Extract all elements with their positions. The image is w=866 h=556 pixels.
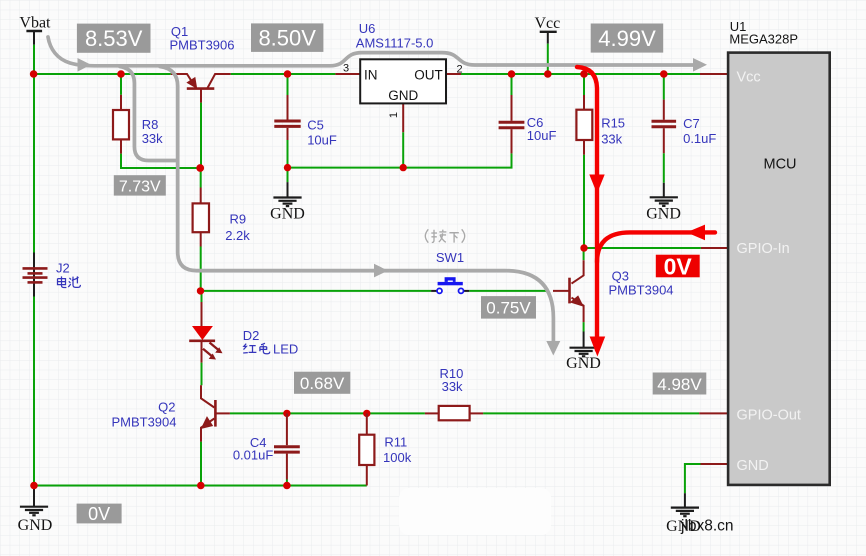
svg-text:J2: J2 bbox=[56, 260, 70, 275]
node C7 top junction bbox=[660, 70, 668, 78]
svg-text:R15: R15 bbox=[601, 116, 625, 131]
resistor R15 bbox=[576, 95, 592, 155]
S1 bbox=[335, 74, 728, 464]
wire node A to R9 top bbox=[200, 168, 202, 188]
wire SW1 line left bbox=[200, 290, 431, 292]
ground symbol below U1 GND pin bbox=[671, 508, 699, 517]
wire C4 bottom green bbox=[286, 480, 288, 486]
wire top bus Vbat corner to Q1 emitter bbox=[33, 73, 171, 75]
watermark cover blob bbox=[399, 488, 551, 535]
wire bottom rail bbox=[34, 485, 367, 487]
label J2 battery CJK bbox=[58, 276, 81, 287]
wire bus stub to U1 Vcc pin bbox=[700, 73, 728, 75]
wire Q2 emitter to bottom rail bbox=[200, 442, 202, 486]
red arrowhead mid below R15 bbox=[589, 175, 604, 194]
node Q2 emitter rail junction bbox=[197, 482, 205, 490]
wire GND stub below node B black bbox=[287, 182, 289, 197]
svg-text:Vbat: Vbat bbox=[19, 15, 51, 32]
svg-text:AMS1117-5.0: AMS1117-5.0 bbox=[356, 36, 434, 51]
node C5 top junction bbox=[284, 70, 292, 78]
svg-text:0.1uF: 0.1uF bbox=[683, 131, 716, 146]
wire Q3 collector green bbox=[583, 248, 585, 260]
node GPIO-In junction bbox=[580, 244, 587, 251]
resistor R8 bbox=[113, 95, 129, 154]
node Vbat corner junction bbox=[30, 70, 38, 78]
node R15 top junction bbox=[580, 70, 588, 78]
red arrowhead on GPIO-In flow pointing left bbox=[687, 225, 706, 241]
svg-text:MEGA328P: MEGA328P bbox=[729, 32, 798, 47]
svg-text:2.2k: 2.2k bbox=[225, 228, 250, 243]
wire Vcc symbol stem black bbox=[547, 32, 549, 44]
wire battery to bottom rail bbox=[33, 297, 35, 486]
wire SW1 left black lead bbox=[431, 290, 437, 292]
svg-text:U6: U6 bbox=[359, 21, 376, 36]
wire C5 bottom green to node B bbox=[287, 140, 289, 168]
wire U1 GND pin stub bbox=[701, 463, 729, 465]
wire bottom-left GND stem black bbox=[33, 486, 35, 507]
wire U1 GND stem black bbox=[684, 493, 686, 507]
node A Q1 base junction bbox=[196, 164, 204, 172]
wire C7 GND stem black bbox=[663, 183, 665, 198]
wire C7 bottom green bbox=[663, 153, 665, 183]
voltage label 0V red bbox=[656, 253, 700, 279]
switch SW1 bbox=[437, 277, 464, 293]
LED D2 bbox=[189, 302, 222, 363]
wire GPIO-In node to pin bbox=[584, 247, 701, 249]
svg-text:D2: D2 bbox=[243, 328, 260, 343]
wire GPIO-Out pin stub bbox=[699, 412, 728, 414]
power symbol Vcc T-bar bbox=[540, 31, 557, 33]
capacitor C5 bbox=[274, 95, 300, 140]
wire Q3 emitter green bbox=[583, 322, 585, 331]
wire U6 GND pin stub bbox=[402, 103, 404, 132]
ground symbol below C5 node B bbox=[273, 198, 301, 207]
voltage label 4.98V bbox=[653, 373, 707, 395]
capacitor C6 bbox=[499, 95, 525, 153]
svg-text:IN: IN bbox=[364, 68, 378, 83]
wire R15 top stub green bbox=[583, 74, 585, 95]
wire SW1 right black lead bbox=[463, 290, 469, 292]
label SW1 pressed CJK (gray) bbox=[425, 229, 464, 242]
svg-text:GPIO-In: GPIO-In bbox=[737, 241, 790, 257]
svg-text:0.01uF: 0.01uF bbox=[233, 448, 274, 463]
wire GND stub below node B green bbox=[287, 168, 289, 183]
wire LED cathode to Q2 collector (green mid) bbox=[201, 363, 203, 386]
voltage label 0.68V bbox=[294, 372, 350, 394]
transistor Q2 PMBT3904 bbox=[201, 385, 230, 441]
node Vcc junction bbox=[544, 70, 552, 78]
ground symbol bottom-left bbox=[20, 507, 48, 516]
power symbol Vbat T-bar bbox=[26, 30, 42, 32]
svg-text:10uF: 10uF bbox=[527, 128, 557, 143]
voltage label 0.75V bbox=[481, 296, 536, 319]
svg-text:0V: 0V bbox=[88, 504, 110, 524]
wire R10 to U1 GPIO-Out bbox=[483, 412, 699, 414]
svg-text:3: 3 bbox=[343, 63, 349, 75]
wire U1 GND pin to ground L bbox=[685, 464, 701, 493]
node SW1 line junction bbox=[197, 287, 204, 294]
svg-text:33k: 33k bbox=[601, 131, 622, 146]
svg-text:MCU: MCU bbox=[763, 156, 796, 172]
MCU U1 MEGA328P box bbox=[728, 53, 830, 485]
wire Q3 emitter to GND black bbox=[583, 332, 585, 348]
svg-text:GND: GND bbox=[737, 458, 769, 474]
wire GPIO-In pin stub bbox=[701, 247, 728, 249]
voltage label 7.73V bbox=[114, 175, 166, 195]
wire C7 top stub green bbox=[663, 74, 665, 100]
svg-text:GND: GND bbox=[270, 206, 305, 223]
node R11 top junction bbox=[363, 410, 370, 417]
svg-text:4.99V: 4.99V bbox=[598, 26, 656, 51]
transistor Q3 PMBT3904 bbox=[553, 260, 584, 322]
voltage label 0V gray bbox=[77, 504, 122, 524]
wire battery stem (black) bbox=[33, 253, 35, 297]
wire gray flow path 2 via R8 loop bbox=[120, 67, 553, 342]
svg-text:R9: R9 bbox=[230, 211, 247, 226]
svg-text:Q2: Q2 bbox=[158, 399, 175, 414]
svg-text:0.68V: 0.68V bbox=[300, 374, 345, 393]
resistor R9 bbox=[193, 188, 209, 247]
gray arrowhead before SW1 bbox=[374, 264, 388, 278]
svg-text:R11: R11 bbox=[384, 434, 407, 449]
svg-text:GND: GND bbox=[388, 88, 418, 103]
svg-text:jlbx8.cn: jlbx8.cn bbox=[680, 518, 734, 535]
wire U6 GND pin green bbox=[402, 132, 404, 167]
node bottom rail left junction bbox=[30, 482, 38, 490]
gray arrowhead down at Q3 GND bbox=[546, 341, 560, 356]
voltage label 8.53V bbox=[77, 24, 151, 53]
svg-text:7.73V: 7.73V bbox=[119, 178, 161, 195]
svg-text:0V: 0V bbox=[664, 253, 693, 279]
gray arrowhead before U1 Vcc bbox=[693, 58, 707, 72]
wire Vbat to bus (green) bbox=[33, 45, 35, 74]
wire Vbat column down to battery bbox=[33, 74, 35, 253]
wire Q2 base line to R10 bbox=[230, 412, 425, 414]
label D2 red LED CJK + LED bbox=[243, 343, 270, 354]
node C6 top junction bbox=[508, 70, 516, 78]
wire C5 top stub green bbox=[287, 74, 289, 95]
red arrowhead down at Q3 GND bbox=[590, 337, 606, 357]
wire LED column from node bbox=[201, 291, 203, 302]
wire bus Q1 collector to U6 IN bbox=[231, 73, 336, 75]
resistor R10 bbox=[425, 406, 483, 420]
wire node B to U6 GND node to C6 bottom bbox=[288, 153, 512, 167]
wire SW1 to Q3 base bbox=[469, 290, 546, 292]
voltage label 8.50V bbox=[251, 23, 323, 52]
node U6 GND junction bbox=[400, 164, 407, 171]
capacitor C7 bbox=[652, 100, 677, 154]
ground symbol below Q3 bbox=[570, 348, 598, 357]
svg-text:Vcc: Vcc bbox=[737, 69, 761, 85]
svg-text:SW1: SW1 bbox=[436, 250, 464, 265]
svg-text:GND: GND bbox=[646, 205, 681, 222]
capacitor C4 bbox=[274, 413, 300, 479]
node R8 top junction bbox=[117, 70, 125, 78]
wire Vcc symbol to bus green bbox=[547, 44, 549, 74]
svg-text:PMBT3904: PMBT3904 bbox=[609, 282, 674, 297]
svg-text:8.53V: 8.53V bbox=[85, 26, 143, 51]
gray arrowhead near Vbat bbox=[78, 58, 92, 72]
op-amp U6 AMS1117-5.0 regulator box bbox=[343, 59, 463, 118]
svg-text:Vcc: Vcc bbox=[535, 15, 561, 32]
battery J2 bbox=[23, 268, 48, 282]
svg-text:10uF: 10uF bbox=[307, 133, 337, 148]
svg-text:R8: R8 bbox=[142, 117, 159, 132]
resistor R11 bbox=[359, 413, 374, 485]
voltage label 4.99V bbox=[591, 24, 664, 53]
svg-text:2: 2 bbox=[456, 63, 462, 75]
svg-text:100k: 100k bbox=[383, 450, 412, 465]
node C4 top junction bbox=[283, 410, 290, 417]
node B C5 bottom junction bbox=[284, 164, 291, 171]
svg-text:1: 1 bbox=[388, 112, 400, 118]
wire U6 OUT stub bbox=[446, 73, 461, 75]
wire gray flow path 1 Vbat to U1 Vcc bbox=[48, 37, 701, 66]
svg-text:OUT: OUT bbox=[414, 68, 443, 83]
svg-text:8.50V: 8.50V bbox=[258, 26, 316, 51]
node C4 bottom junction bbox=[283, 482, 291, 490]
ground symbol below C7 bbox=[650, 197, 678, 206]
wire R8 bottom L to node A bbox=[121, 154, 200, 168]
svg-text:GND: GND bbox=[18, 517, 53, 534]
wire bus U6 OUT to U1 Vcc bbox=[461, 73, 700, 75]
transistor Q1 PMBT3906 bbox=[171, 74, 231, 103]
wire Q1 base down to node A bbox=[200, 103, 202, 168]
wire red flow path from bus through R15 to GND bbox=[577, 67, 715, 350]
svg-text:PMBT3904: PMBT3904 bbox=[111, 415, 176, 430]
svg-text:Q3: Q3 bbox=[612, 268, 629, 283]
wire Vbat stem (black) bbox=[33, 31, 35, 45]
svg-text:33k: 33k bbox=[142, 131, 163, 146]
svg-text:LED: LED bbox=[273, 341, 298, 356]
svg-text:4.98V: 4.98V bbox=[657, 375, 702, 394]
svg-text:PMBT3906: PMBT3906 bbox=[169, 37, 234, 52]
wire R15 bottom to GPIO-In node bbox=[583, 155, 585, 248]
wire R9 bottom to SW1 line node bbox=[200, 247, 202, 291]
svg-text:33k: 33k bbox=[442, 379, 463, 394]
svg-text:C7: C7 bbox=[683, 116, 700, 131]
svg-text:GPIO-Out: GPIO-Out bbox=[737, 408, 801, 424]
wire C6 top stub green bbox=[511, 74, 513, 95]
svg-text:0.75V: 0.75V bbox=[486, 299, 531, 318]
svg-text:GND: GND bbox=[566, 355, 601, 372]
svg-text:C5: C5 bbox=[307, 118, 324, 133]
wire bus stub to U6 IN (dark red) bbox=[335, 73, 360, 75]
wire R8 top stub green bbox=[120, 74, 122, 95]
